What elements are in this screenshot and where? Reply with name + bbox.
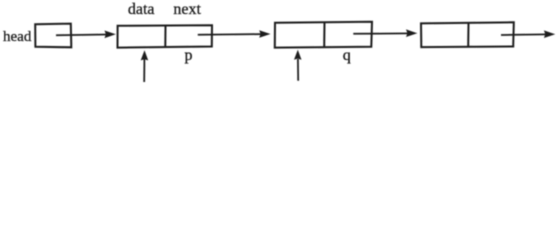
svg-text:head: head bbox=[3, 29, 32, 45]
wire head to node1 bbox=[56, 34, 107, 37]
arrowhead into node3 bbox=[406, 29, 417, 37]
wire node1 to node2 bbox=[198, 33, 261, 36]
pointer p up-arrow head bbox=[141, 50, 149, 60]
arrowhead list tail bbox=[544, 30, 555, 38]
pointer p up-arrow shaft bbox=[143, 59, 145, 83]
pointer q up-arrow head bbox=[294, 50, 302, 60]
svg-text:next: next bbox=[173, 1, 201, 18]
svg-text:p: p bbox=[185, 47, 193, 64]
node N3 divider bbox=[467, 23, 469, 47]
node N3 box bbox=[421, 22, 514, 47]
wire node3 onward bbox=[501, 33, 546, 36]
node N2 divider bbox=[323, 22, 325, 47]
node N2 box bbox=[275, 22, 372, 48]
node N1 box bbox=[118, 25, 213, 47]
arrowhead into node2 bbox=[259, 30, 270, 38]
svg-text:q: q bbox=[343, 47, 351, 64]
svg-text:data: data bbox=[128, 1, 155, 18]
node N1 divider bbox=[164, 26, 166, 47]
arrowhead into node1 bbox=[105, 31, 116, 39]
wire node2 to node3 bbox=[353, 32, 409, 34]
pointer q up-arrow shaft bbox=[297, 59, 299, 81]
head pointer box bbox=[35, 24, 71, 48]
